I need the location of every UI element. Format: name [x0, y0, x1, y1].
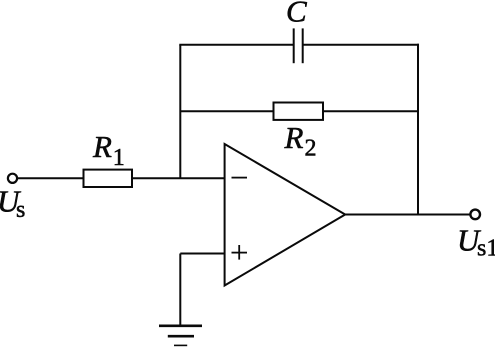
output terminal Us1: [470, 210, 480, 220]
capacitor C: [294, 28, 303, 63]
label Us1 (output): [457, 223, 495, 262]
wire: input terminal to R1: [18, 177, 84, 179]
resistor R2: [274, 103, 324, 120]
ground: [159, 326, 202, 346]
svg-text:s1: s1: [477, 236, 495, 262]
label C: [286, 0, 307, 29]
op-amp inverting input marker (minus): [232, 177, 248, 179]
svg-text:R: R: [92, 129, 112, 164]
resistor R1: [84, 170, 133, 187]
op-amp U1: [225, 144, 346, 286]
wire: R2 branch left segment: [180, 110, 273, 112]
label Us (input): [0, 184, 25, 224]
svg-text:1: 1: [113, 145, 125, 171]
svg-text:C: C: [286, 0, 307, 29]
label R2: [284, 120, 317, 162]
label R1: [92, 129, 125, 171]
svg-text:2: 2: [305, 136, 317, 162]
input terminal Us: [8, 174, 17, 183]
node A: left feedback vertical wire: [179, 45, 181, 179]
wire: capacitor to top-right corner: [303, 44, 419, 46]
svg-text:R: R: [284, 120, 304, 155]
wire: R1 to op-amp inverting input (through node A): [132, 177, 225, 179]
wire: right feedback vertical down to output node: [417, 44, 419, 215]
wire: top feedback left segment to capacitor: [179, 44, 293, 46]
wire: op-amp output to output terminal: [345, 214, 470, 216]
wire: R2 branch right segment: [323, 110, 419, 112]
wire: non-inverting input down to ground: [179, 254, 181, 326]
svg-text:s: s: [16, 197, 25, 223]
wire: non-inverting input horizontal: [180, 253, 224, 255]
op-amp non-inverting input marker (plus): [232, 245, 248, 260]
